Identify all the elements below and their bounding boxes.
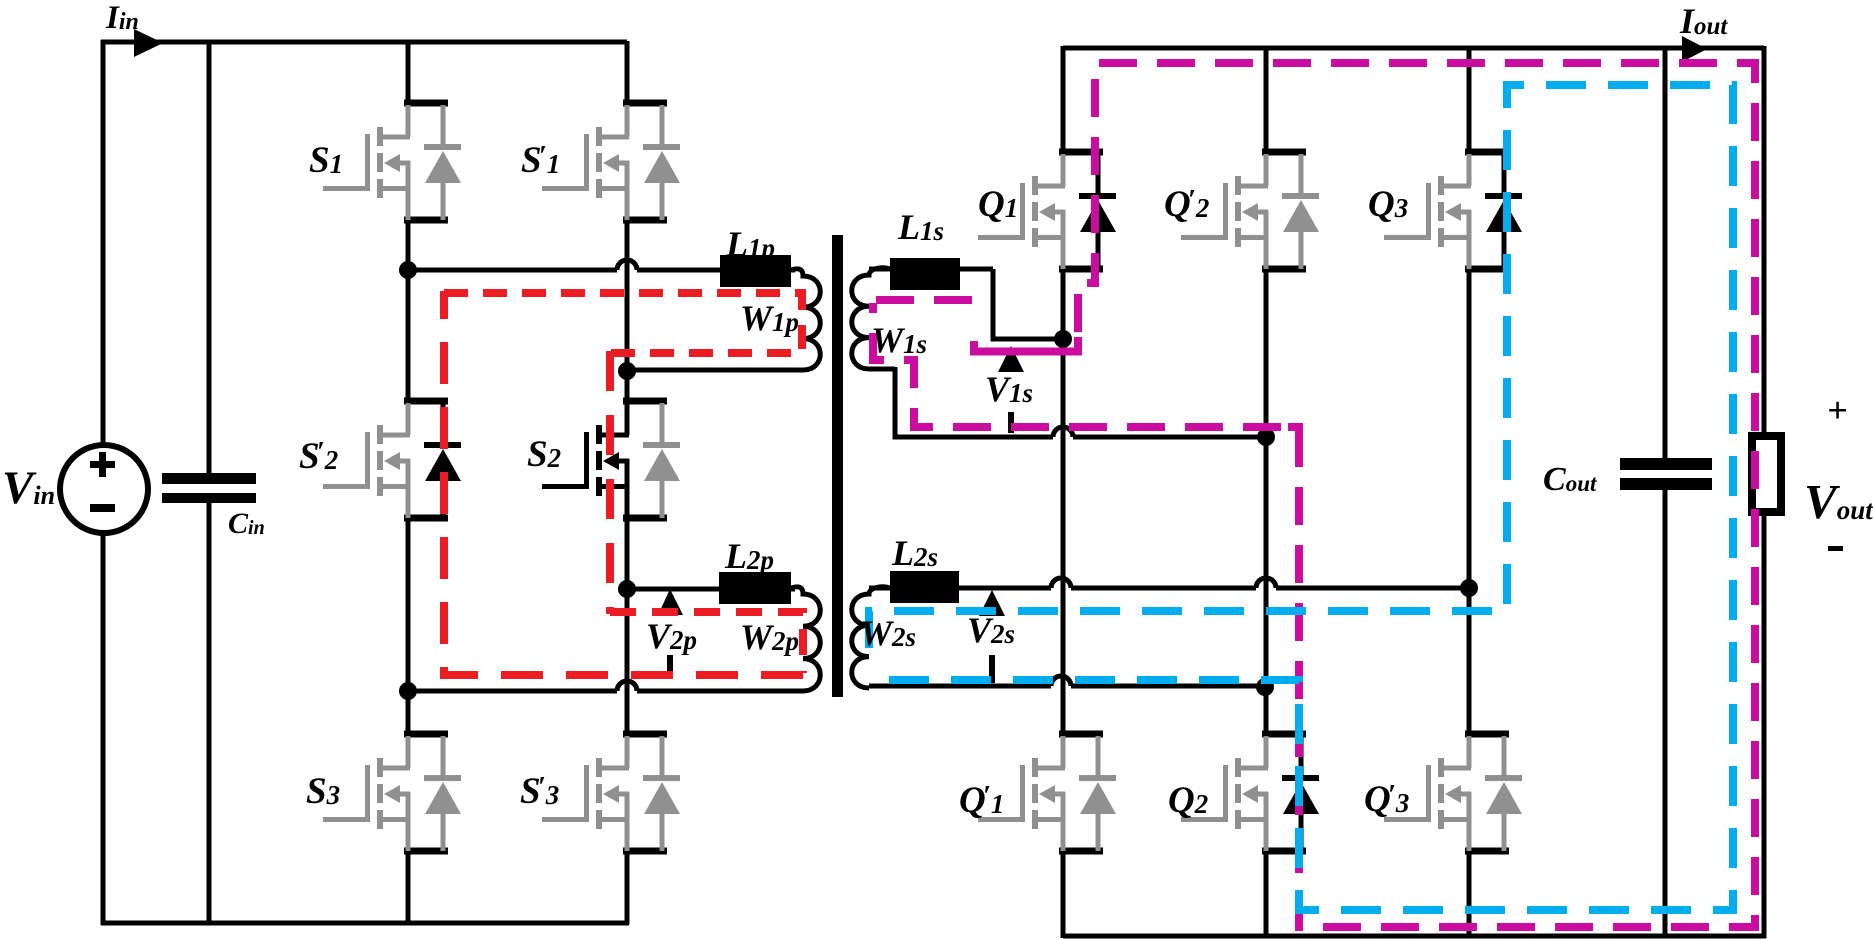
- svg-text:Vout: Vout: [1804, 474, 1873, 529]
- svg-text:Q′1: Q′1: [959, 780, 1004, 821]
- svg-text:L1s: L1s: [897, 207, 944, 247]
- svg-text:Q1: Q1: [978, 184, 1018, 225]
- svg-text:Cout: Cout: [1543, 461, 1597, 498]
- svg-text:S′1: S′1: [521, 140, 560, 181]
- svg-text:Iout: Iout: [1679, 1, 1728, 41]
- svg-text:L1p: L1p: [725, 224, 775, 264]
- svg-text:Iin: Iin: [105, 0, 139, 36]
- svg-text:L2s: L2s: [891, 533, 938, 573]
- svg-text:Q2: Q2: [1168, 780, 1208, 821]
- svg-text:Q3: Q3: [1368, 184, 1408, 225]
- svg-text:S′2: S′2: [299, 436, 338, 477]
- svg-text:W1p: W1p: [740, 298, 799, 338]
- svg-text:W2s: W2s: [860, 613, 916, 653]
- svg-text:W1s: W1s: [871, 320, 927, 360]
- svg-text:Q′3: Q′3: [1364, 779, 1409, 820]
- svg-text:+: +: [1827, 390, 1848, 430]
- svg-text:Vin: Vin: [2, 462, 55, 514]
- svg-text:S2: S2: [527, 434, 561, 475]
- svg-text:S′3: S′3: [520, 771, 559, 812]
- svg-text:S3: S3: [306, 771, 340, 812]
- svg-text:W2p: W2p: [740, 617, 799, 657]
- svg-text:L2p: L2p: [724, 536, 774, 576]
- svg-text:V2p: V2p: [646, 616, 697, 656]
- svg-text:S1: S1: [309, 140, 343, 181]
- svg-text:V1s: V1s: [985, 369, 1033, 409]
- svg-text:Q′2: Q′2: [1164, 184, 1209, 225]
- svg-text:Cin: Cin: [228, 507, 265, 540]
